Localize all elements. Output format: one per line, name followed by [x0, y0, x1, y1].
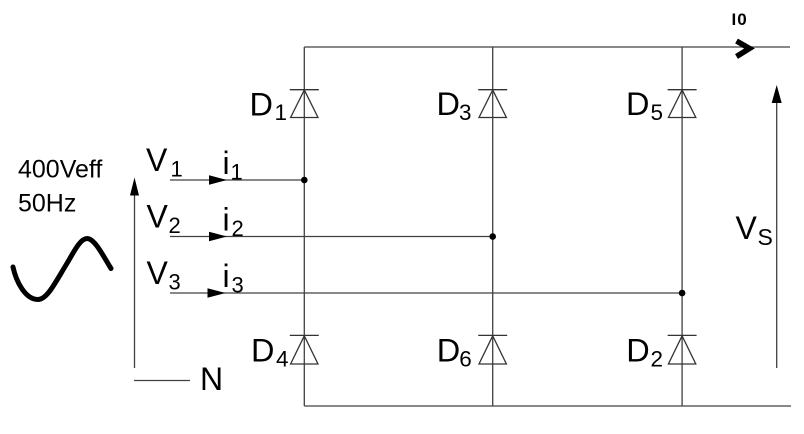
svg-text:i: i: [223, 202, 230, 238]
svg-text:S: S: [758, 224, 773, 250]
svg-text:1: 1: [275, 100, 288, 125]
svg-text:N: N: [200, 361, 223, 397]
svg-text:2: 2: [169, 213, 181, 238]
svg-text:D: D: [250, 86, 273, 122]
svg-text:D: D: [437, 333, 460, 369]
svg-text:4: 4: [276, 346, 289, 371]
svg-text:1: 1: [231, 160, 243, 185]
svg-text:6: 6: [459, 346, 472, 371]
svg-text:V: V: [146, 142, 168, 178]
svg-text:3: 3: [169, 269, 181, 294]
svg-text:V: V: [147, 199, 169, 235]
svg-text:2: 2: [232, 216, 244, 241]
svg-text:3: 3: [232, 273, 244, 298]
svg-text:400Veff: 400Veff: [18, 156, 102, 184]
svg-text:1: 1: [171, 157, 183, 182]
svg-text:D: D: [251, 333, 274, 369]
svg-text:V: V: [736, 210, 758, 246]
svg-text:2: 2: [651, 346, 664, 371]
svg-text:I0: I0: [732, 10, 748, 29]
svg-text:D: D: [626, 86, 649, 122]
svg-text:i: i: [223, 145, 230, 181]
svg-text:D: D: [437, 86, 460, 122]
svg-text:V: V: [147, 255, 169, 291]
svg-text:50Hz: 50Hz: [18, 190, 76, 218]
svg-text:5: 5: [651, 100, 664, 125]
svg-text:i: i: [223, 258, 230, 294]
svg-text:D: D: [626, 333, 649, 369]
svg-text:3: 3: [459, 100, 472, 125]
